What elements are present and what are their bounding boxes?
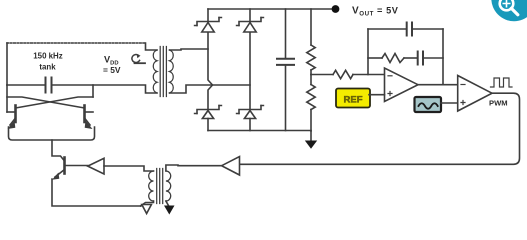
transformer T2 core: [157, 169, 163, 204]
feedback network: left vertical: [367, 29, 369, 75]
cross-coupling wire B (right top to left base): [16, 97, 94, 108]
ground (filled arrow, T2 right): [164, 201, 175, 215]
square wave icon: [491, 78, 513, 87]
buffer U4 (feedback): [222, 157, 240, 176]
diode D1 (top left, schottky): [195, 9, 222, 32]
cross-coupling wire A (left top to right base): [7, 97, 85, 108]
diode D4 (bottom right, schottky): [237, 106, 264, 131]
wire: buffer U1 output to T2 primary: [104, 166, 154, 171]
transformer T1 secondary winding: [170, 50, 174, 93]
bridge left column with hop kink: [208, 32, 213, 110]
op-amp U2 (error amplifier): [385, 68, 419, 102]
bridge right column: [249, 32, 251, 110]
wire: left collector rail: [6, 85, 8, 112]
oscillator supply/tank loop box: [7, 43, 157, 93]
svg-text:150 kHz: 150 kHz: [33, 52, 62, 61]
resistor R1 (divider top): [307, 9, 315, 75]
AC loop arrow glyph: [132, 54, 145, 63]
wire: ramp to comparator + input: [441, 102, 458, 104]
wire: right collector rail: [92, 85, 94, 97]
REF box: [336, 89, 370, 108]
svg-text:VOUT = 5V: VOUT = 5V: [352, 6, 399, 18]
wire: secondary top to bridge: [170, 49, 209, 50]
comparator U3: [458, 76, 492, 112]
svg-text:tank: tank: [39, 63, 56, 72]
wire: Q3 emitter to bottom return: [52, 179, 141, 206]
transformer T2 (right winding): [166, 171, 171, 201]
buffer U1 (drives Q3): [88, 158, 104, 174]
transistor Q3 (tail): [52, 158, 88, 180]
svg-text:PWM: PWM: [489, 99, 508, 108]
resistor R3 (error amp input): [311, 70, 385, 78]
svg-text:REF: REF: [344, 95, 363, 106]
ground (rectifier return arrow): [305, 131, 317, 149]
wire: U2 output: [418, 84, 458, 86]
capacitor C4 (feedback top branch): [368, 23, 443, 36]
transformer T1 core: [160, 47, 166, 97]
wire: top output rail: [208, 8, 336, 10]
emitter rail (U shape): [9, 127, 95, 140]
label: 150 kHz tank: [33, 52, 62, 72]
transistor Q1 (left of cross-coupled pair): [7, 106, 16, 130]
ramp generator box: [415, 97, 442, 112]
capacitor C2 (output filter): [277, 9, 294, 131]
node VOUT dot: [332, 5, 340, 13]
wire: T2 left winding bottom: [141, 201, 154, 206]
feedback network: right vertical: [442, 29, 444, 85]
tank capacitor C1: [46, 78, 52, 93]
wire: secondary bottom to bridge (passes left column): [170, 85, 251, 93]
label: VOUT = 5V: [352, 6, 399, 18]
wire: U4 output to T2 secondary top: [166, 165, 222, 171]
diode D3 (bottom left, schottky): [195, 106, 222, 131]
resistor R2 (divider bottom): [307, 75, 315, 132]
feedback wire (PWM output loop): [240, 93, 520, 164]
wire: tail tap: [52, 140, 65, 161]
resistor R4 + capacitor C3 (feedback middle branch): [368, 52, 443, 65]
ground (open arrow, T2 left): [142, 205, 152, 214]
transformer T2 (bottom, left winding): [149, 171, 154, 201]
transistor Q2 (right of cross-coupled pair): [85, 106, 94, 130]
diode D2 (top right, schottky): [237, 9, 264, 32]
magnifier icon: [491, 0, 527, 21]
transformer T1 (main, primary winding): [153, 50, 157, 93]
wire: bottom rail of rectifier: [208, 130, 311, 132]
label: VDD = 5V: [103, 55, 121, 76]
wire: REF to U2 + input: [369, 94, 385, 96]
svg-text:= 5V: = 5V: [103, 65, 121, 75]
